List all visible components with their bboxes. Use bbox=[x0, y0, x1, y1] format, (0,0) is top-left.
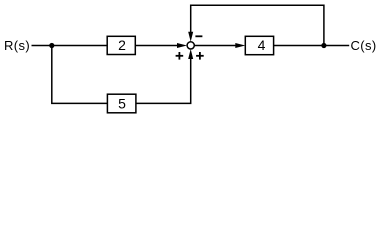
svg-text:5: 5 bbox=[118, 95, 126, 111]
svg-text:C(s): C(s) bbox=[351, 38, 377, 53]
svg-text:R(s): R(s) bbox=[4, 38, 30, 53]
svg-text:2: 2 bbox=[118, 37, 126, 53]
svg-text:4: 4 bbox=[258, 37, 266, 53]
